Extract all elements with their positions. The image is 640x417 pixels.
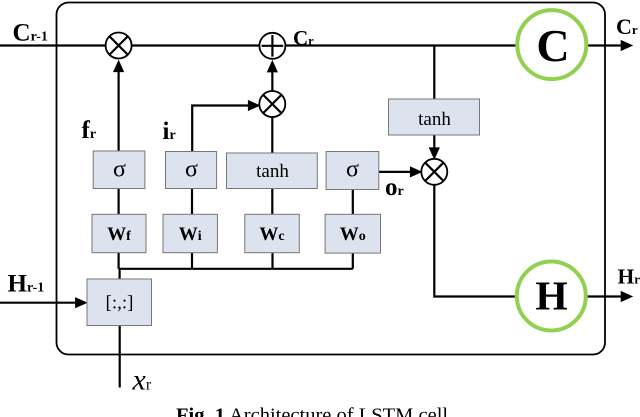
- svg-text:Fig. 1 Architecture of LSTM ce: Fig. 1 Architecture of LSTM cell: [176, 405, 448, 417]
- svg-text:C: C: [536, 20, 569, 71]
- svg-text:σ: σ: [185, 157, 198, 183]
- svg-text:σ: σ: [113, 157, 126, 183]
- svg-text:tanh: tanh: [418, 109, 451, 130]
- svg-text:[:,:]: [:,:]: [106, 293, 134, 314]
- svg-text:H: H: [535, 273, 567, 319]
- svg-text:tanh: tanh: [256, 161, 289, 182]
- svg-text:σ: σ: [346, 157, 359, 183]
